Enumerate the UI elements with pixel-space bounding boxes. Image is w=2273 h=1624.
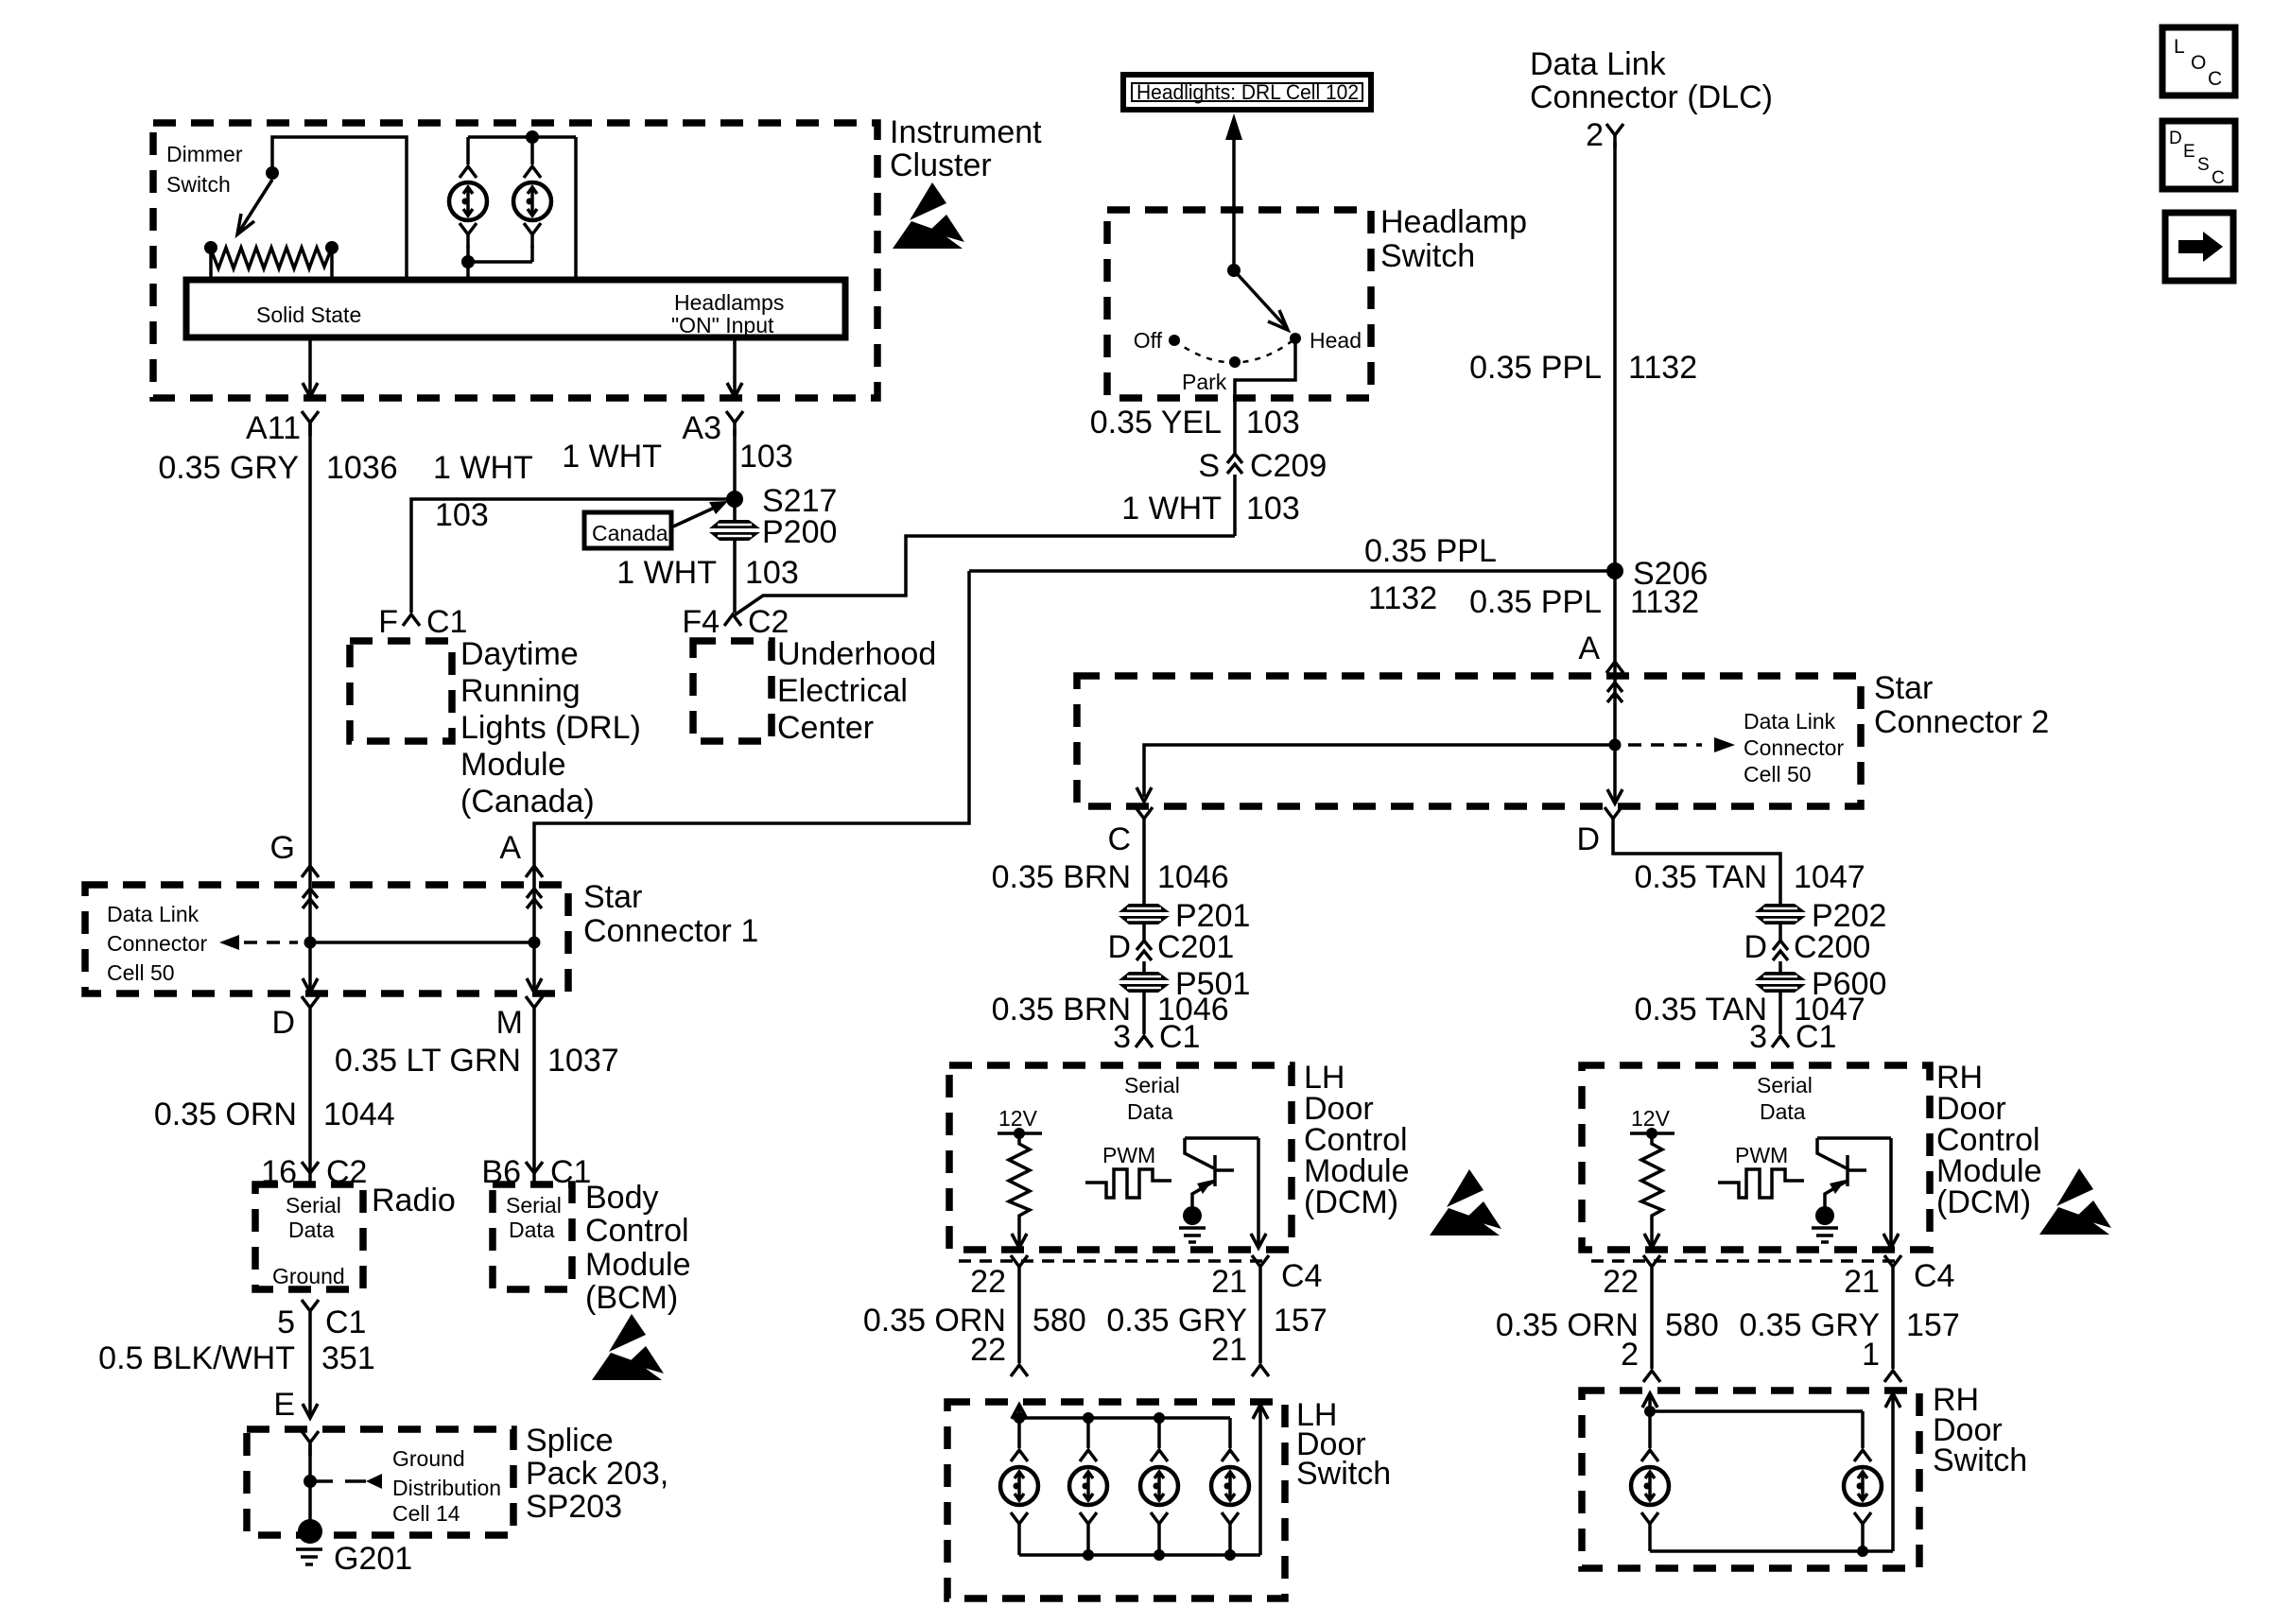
svg-text:21: 21 xyxy=(1844,1264,1880,1300)
splice S217 xyxy=(726,483,837,519)
pin E splice pack xyxy=(302,1431,319,1456)
svg-text:103: 103 xyxy=(1246,405,1300,441)
connector S C209 xyxy=(1198,448,1327,484)
svg-text:PWM: PWM xyxy=(1102,1143,1155,1167)
pin A11 xyxy=(246,410,319,446)
svg-text:Instrument: Instrument xyxy=(890,114,1042,150)
svg-text:1132: 1132 xyxy=(1368,580,1437,616)
PWM waveform (LH) xyxy=(1085,1143,1171,1198)
A branch inside SC1 xyxy=(527,889,542,993)
svg-text:Star: Star xyxy=(583,879,642,915)
svg-text:Switch: Switch xyxy=(1380,238,1475,274)
wire 0.35 ORN 580 (LH) xyxy=(863,1280,1086,1368)
pin 1 RH door switch xyxy=(1884,1371,1901,1382)
svg-text:Data Link: Data Link xyxy=(1530,46,1667,82)
svg-text:1037: 1037 xyxy=(547,1043,619,1079)
ground (RH DCM internal) xyxy=(1812,1206,1838,1242)
svg-text:Radio: Radio xyxy=(372,1183,456,1218)
ESD symbol (instrument cluster) xyxy=(893,182,964,249)
connector C4 interface (RH) xyxy=(1591,1255,1954,1300)
svg-text:0.35 ORN: 0.35 ORN xyxy=(154,1097,297,1132)
daytime running lights module box xyxy=(350,636,641,820)
svg-text:E: E xyxy=(2183,142,2195,162)
svg-text:3: 3 xyxy=(1113,1019,1131,1055)
wire 0.35 GRY 157 (RH) xyxy=(1739,1280,1959,1373)
pin 16 C2 radio xyxy=(261,1154,367,1190)
svg-text:Pack 203,: Pack 203, xyxy=(526,1456,668,1492)
svg-text:"ON" Input: "ON" Input xyxy=(671,313,774,337)
dimmer switch xyxy=(166,137,407,280)
svg-text:0.35 LT GRN: 0.35 LT GRN xyxy=(335,1043,521,1079)
svg-text:C: C xyxy=(2212,168,2225,188)
svg-text:Cell 50: Cell 50 xyxy=(107,960,175,985)
inline connector P202 xyxy=(1755,898,1886,934)
pin F C1 DRL module xyxy=(378,604,467,640)
pin 3 C1 LH DCM xyxy=(1113,1019,1200,1055)
pin F4 C2 underhood xyxy=(682,604,789,640)
svg-text:C200: C200 xyxy=(1794,929,1870,965)
potentiometer (dimmer rheostat) xyxy=(204,241,338,280)
svg-text:1132: 1132 xyxy=(1628,350,1697,386)
svg-text:Splice: Splice xyxy=(526,1423,614,1459)
svg-text:D: D xyxy=(271,1005,295,1041)
svg-text:Running: Running xyxy=(460,673,581,709)
wire 1 WHT 103 (C209) xyxy=(1121,475,1300,536)
wire 0.35 ORN 1044 xyxy=(154,1021,395,1173)
SC1 internal bus wire xyxy=(310,941,534,944)
svg-text:157: 157 xyxy=(1906,1307,1960,1343)
svg-text:A11: A11 xyxy=(246,410,301,446)
LOC reference box xyxy=(2162,27,2235,95)
svg-text:Switch: Switch xyxy=(1933,1443,2027,1478)
svg-text:Switch: Switch xyxy=(1296,1456,1391,1492)
svg-text:Connector (DLC): Connector (DLC) xyxy=(1530,79,1773,115)
svg-text:SP203: SP203 xyxy=(526,1489,622,1525)
svg-text:C1: C1 xyxy=(325,1304,366,1340)
svg-text:0.35 YEL: 0.35 YEL xyxy=(1090,405,1222,441)
svg-text:Cluster: Cluster xyxy=(890,147,992,183)
wire 0.35 PPL 1132 horizontal xyxy=(969,533,1615,616)
splice pack internal wire xyxy=(308,1444,312,1527)
svg-text:351: 351 xyxy=(321,1340,375,1376)
wire 1 WHT 103 branch to DRL xyxy=(411,450,735,613)
svg-text:Park: Park xyxy=(1182,370,1227,394)
LH DCM box xyxy=(949,1065,1292,1250)
svg-text:Switch: Switch xyxy=(166,172,231,197)
svg-text:C4: C4 xyxy=(1914,1258,1954,1294)
transistor Q (RH DCM) xyxy=(1817,1138,1891,1207)
12V pullup resistor (RH) xyxy=(1630,1106,1674,1248)
RH lamp 2 xyxy=(1844,1411,1882,1551)
connector C4 interface (LH) xyxy=(959,1255,1322,1300)
LH switch return wire xyxy=(1253,1405,1268,1555)
svg-text:C1: C1 xyxy=(1796,1019,1836,1055)
pin A star connector 2 xyxy=(1578,631,1623,673)
svg-text:0.5 BLK/WHT: 0.5 BLK/WHT xyxy=(98,1340,295,1376)
pin 21 LH door switch xyxy=(1252,1365,1269,1376)
LH door switch box xyxy=(947,1402,1285,1598)
svg-text:3: 3 xyxy=(1749,1019,1767,1055)
lamp feed wires xyxy=(461,130,576,280)
LH lamp 3 xyxy=(1140,1418,1178,1555)
wire 1 WHT 103 (A3) xyxy=(562,429,793,522)
radio box xyxy=(255,1184,363,1289)
svg-text:Serial: Serial xyxy=(1757,1073,1813,1097)
headlamp switch box xyxy=(1107,210,1371,398)
svg-text:0.35 TAN: 0.35 TAN xyxy=(1635,859,1767,895)
wire A11 output arrow xyxy=(303,337,318,397)
splice S206 xyxy=(1469,556,1708,620)
svg-text:E: E xyxy=(273,1387,295,1423)
wire 0.5 BLK/WHT 351 xyxy=(98,1324,375,1423)
svg-text:G: G xyxy=(270,830,295,866)
RH DCM output wire to pin 21 xyxy=(1883,1138,1899,1248)
C branch inside SC2 xyxy=(1136,745,1615,802)
svg-text:C1: C1 xyxy=(426,604,467,640)
12V pullup resistor (LH) xyxy=(998,1106,1042,1248)
svg-text:S: S xyxy=(2197,155,2210,175)
LH lamp 2 xyxy=(1069,1418,1107,1555)
dashed reference arrow to DLC cell 50 xyxy=(219,935,298,950)
svg-text:Star: Star xyxy=(1874,670,1933,706)
connector D C201 xyxy=(1107,924,1234,965)
svg-text:2: 2 xyxy=(1621,1337,1639,1373)
svg-text:Solid State: Solid State xyxy=(256,302,361,327)
svg-text:(Canada): (Canada) xyxy=(460,784,595,820)
svg-text:Connector 1: Connector 1 xyxy=(583,913,758,949)
wire 1 WHT 103 (below P200) xyxy=(616,541,799,613)
instrument cluster box xyxy=(153,123,877,398)
pin D below SC2 xyxy=(1576,807,1622,857)
svg-text:580: 580 xyxy=(1665,1307,1719,1343)
svg-text:1 WHT: 1 WHT xyxy=(562,439,662,475)
svg-text:P200: P200 xyxy=(762,514,837,550)
pin 2 DLC xyxy=(1586,117,1623,153)
svg-text:G201: G201 xyxy=(334,1541,412,1577)
svg-text:1 WHT: 1 WHT xyxy=(616,555,717,591)
pin A star connector 1 xyxy=(499,830,543,877)
svg-text:(BCM): (BCM) xyxy=(585,1280,678,1316)
wire 0.35 GRY 157 (LH) xyxy=(1106,1280,1327,1368)
svg-text:1036: 1036 xyxy=(326,450,398,486)
wire 0.35 BRN 1046 (lower) xyxy=(992,992,1229,1034)
svg-text:0.35 BRN: 0.35 BRN xyxy=(992,859,1131,895)
svg-text:Connector 2: Connector 2 xyxy=(1874,704,2049,740)
svg-text:2: 2 xyxy=(1586,117,1604,153)
svg-text:D: D xyxy=(1576,821,1600,857)
LH lamp 1 xyxy=(1000,1450,1038,1555)
wire 0.35 GRY 1036 xyxy=(158,423,397,909)
svg-text:0.35 TAN: 0.35 TAN xyxy=(1635,992,1767,1028)
solid state box xyxy=(186,280,845,337)
PWM waveform (RH) xyxy=(1718,1143,1804,1198)
svg-text:A: A xyxy=(499,830,521,866)
svg-text:Underhood: Underhood xyxy=(777,636,936,672)
svg-text:21: 21 xyxy=(1211,1332,1247,1368)
svg-text:(DCM): (DCM) xyxy=(1304,1184,1398,1220)
wire 0.35 ORN 580 (RH) xyxy=(1496,1280,1719,1373)
ESD symbol (BCM) xyxy=(592,1314,664,1380)
svg-text:580: 580 xyxy=(1032,1303,1086,1339)
svg-text:103: 103 xyxy=(1246,491,1300,527)
body control module box xyxy=(493,1184,572,1289)
svg-text:C: C xyxy=(1107,821,1131,857)
pin B6 C1 bcm xyxy=(481,1154,591,1190)
svg-text:Data: Data xyxy=(1127,1099,1173,1124)
svg-text:21: 21 xyxy=(1211,1264,1247,1300)
svg-text:F4: F4 xyxy=(682,604,720,640)
svg-text:O: O xyxy=(2191,52,2206,74)
svg-text:1 WHT: 1 WHT xyxy=(433,450,533,486)
inline connector P201 xyxy=(1119,898,1250,934)
svg-text:A3: A3 xyxy=(682,410,721,446)
svg-text:Serial: Serial xyxy=(506,1193,562,1218)
LH lamp 4 xyxy=(1211,1418,1249,1555)
inline connector P200 xyxy=(709,514,837,550)
dashed reference arrow to DLC cell 50 (SC2) xyxy=(1628,709,1844,786)
svg-text:1044: 1044 xyxy=(323,1097,395,1132)
svg-text:12V: 12V xyxy=(998,1106,1038,1131)
svg-text:0.35 GRY: 0.35 GRY xyxy=(1739,1307,1880,1343)
svg-text:C2: C2 xyxy=(748,604,789,640)
svg-text:F: F xyxy=(378,604,398,640)
svg-text:1047: 1047 xyxy=(1794,859,1865,895)
pin 3 C1 RH DCM xyxy=(1749,1019,1836,1055)
transistor Q (LH DCM) xyxy=(1185,1138,1258,1207)
svg-text:103: 103 xyxy=(435,497,489,533)
svg-text:PWM: PWM xyxy=(1735,1143,1788,1167)
svg-text:Data Link: Data Link xyxy=(107,902,200,926)
svg-text:D: D xyxy=(2169,129,2182,148)
connector D C200 xyxy=(1744,924,1870,965)
svg-text:L: L xyxy=(2174,36,2185,58)
underhood electrical center box xyxy=(693,636,936,746)
svg-text:1046: 1046 xyxy=(1157,859,1229,895)
svg-text:1: 1 xyxy=(1862,1337,1880,1373)
svg-text:Connector: Connector xyxy=(107,931,207,956)
svg-text:Lights (DRL): Lights (DRL) xyxy=(460,710,641,746)
svg-text:22: 22 xyxy=(970,1264,1006,1300)
svg-text:103: 103 xyxy=(739,439,793,475)
wire to star connector 1 A xyxy=(534,571,969,909)
pin 22 LH door switch xyxy=(1011,1365,1028,1376)
svg-text:0.35 PPL: 0.35 PPL xyxy=(1469,350,1602,386)
pin 5 C1 radio ground xyxy=(277,1300,366,1340)
svg-text:Control: Control xyxy=(585,1213,689,1249)
RH switch feed wire xyxy=(1642,1393,1863,1448)
RH lamp 1 xyxy=(1631,1450,1669,1551)
A branch inside SC2 xyxy=(1607,682,1622,803)
LH switch bottom bus xyxy=(1019,1549,1260,1561)
DESC reference box xyxy=(2162,121,2235,189)
svg-text:C4: C4 xyxy=(1281,1258,1322,1294)
Canada label box xyxy=(584,501,728,548)
forward arrow box xyxy=(2165,213,2233,281)
svg-text:157: 157 xyxy=(1274,1303,1327,1339)
pin C below SC2 xyxy=(1107,807,1153,857)
svg-text:0.35 PPL: 0.35 PPL xyxy=(1469,584,1602,620)
svg-text:Data Link: Data Link xyxy=(1744,709,1836,734)
svg-text:22: 22 xyxy=(970,1332,1006,1368)
svg-text:Canada: Canada xyxy=(592,521,668,545)
wire from C209 to underhood F4 C2 xyxy=(733,536,1235,616)
svg-text:0.35 ORN: 0.35 ORN xyxy=(1496,1307,1639,1343)
svg-text:C209: C209 xyxy=(1250,448,1327,484)
svg-text:Body: Body xyxy=(585,1180,659,1216)
svg-text:(DCM): (DCM) xyxy=(1936,1184,2031,1220)
svg-text:S: S xyxy=(1198,448,1220,484)
star connector 1 box xyxy=(85,885,568,993)
svg-text:Electrical: Electrical xyxy=(777,673,908,709)
svg-text:Center: Center xyxy=(777,710,874,746)
svg-text:12V: 12V xyxy=(1631,1106,1671,1131)
svg-text:103: 103 xyxy=(745,555,799,591)
wire 0.35 TAN 1047 xyxy=(1613,832,1865,904)
wire 0.35 PPL 1132 (DLC) xyxy=(1469,142,1697,703)
inline connector P600 xyxy=(1755,961,1886,1002)
G branch inside SC1 xyxy=(303,889,318,993)
svg-text:D: D xyxy=(1107,929,1131,965)
wire 0.35 TAN 1047 (lower) xyxy=(1635,992,1865,1034)
svg-text:Ground: Ground xyxy=(272,1264,345,1288)
star connector 2 box xyxy=(1077,676,1861,806)
ground distribution reference arrow xyxy=(304,1446,501,1526)
svg-text:Daytime: Daytime xyxy=(460,636,579,672)
svg-text:Headlamp: Headlamp xyxy=(1380,204,1527,240)
arrow up to headlights reference xyxy=(1225,113,1242,210)
data link connector label xyxy=(1530,46,1773,115)
svg-text:D: D xyxy=(1744,929,1767,965)
svg-text:0.35 GRY: 0.35 GRY xyxy=(158,450,299,486)
svg-text:M: M xyxy=(496,1005,523,1041)
svg-text:C: C xyxy=(2208,68,2222,90)
RH switch return wire xyxy=(1885,1393,1900,1551)
RH DCM box xyxy=(1582,1065,1930,1250)
wire 0.35 YEL 103 xyxy=(1090,405,1300,441)
svg-text:Distribution: Distribution xyxy=(392,1476,501,1500)
RH switch bottom bus xyxy=(1650,1546,1893,1557)
LH switch feed wire xyxy=(1012,1405,1230,1448)
svg-text:Headlights: DRL Cell 102: Headlights: DRL Cell 102 xyxy=(1136,80,1359,104)
LH DCM output wire to pin 21 xyxy=(1251,1138,1266,1248)
svg-text:Off: Off xyxy=(1134,328,1163,353)
ESD symbol (RH DCM) xyxy=(2039,1168,2111,1235)
svg-text:C201: C201 xyxy=(1157,929,1234,965)
svg-text:5: 5 xyxy=(277,1304,295,1340)
svg-text:Cell 14: Cell 14 xyxy=(392,1501,460,1526)
svg-text:Connector: Connector xyxy=(1744,735,1844,760)
svg-text:Module: Module xyxy=(585,1247,691,1283)
svg-text:Data: Data xyxy=(1760,1099,1806,1124)
svg-text:0.35 PPL: 0.35 PPL xyxy=(1364,533,1497,569)
wire 0.35 BRN 1046 xyxy=(992,832,1229,904)
svg-text:Head: Head xyxy=(1310,328,1362,353)
svg-text:Module: Module xyxy=(460,747,566,783)
pin A3 xyxy=(682,410,743,446)
ESD symbol (LH DCM) xyxy=(1430,1169,1501,1235)
pin M below SC1 xyxy=(496,996,543,1041)
svg-text:1 WHT: 1 WHT xyxy=(1121,491,1222,527)
pin D below SC1 xyxy=(271,996,319,1041)
svg-text:Ground: Ground xyxy=(392,1446,465,1471)
svg-text:C1: C1 xyxy=(1159,1019,1200,1055)
wire 0.35 LT GRN 1037 xyxy=(335,1021,619,1173)
svg-text:22: 22 xyxy=(1603,1264,1639,1300)
svg-text:A: A xyxy=(1578,631,1600,666)
svg-text:Cell 50: Cell 50 xyxy=(1744,762,1812,786)
svg-text:Headlamps: Headlamps xyxy=(674,290,784,315)
svg-text:Serial: Serial xyxy=(1124,1073,1180,1097)
inline connector P501 xyxy=(1119,961,1250,1002)
svg-text:Data: Data xyxy=(509,1218,555,1242)
splice pack box xyxy=(247,1429,513,1535)
ground (LH DCM internal) xyxy=(1179,1206,1206,1242)
svg-text:0.35 BRN: 0.35 BRN xyxy=(992,992,1131,1028)
cluster illumination lamp 1 xyxy=(449,137,487,280)
headlights DRL cell 102 reference box xyxy=(1123,75,1371,110)
cluster illumination lamp 2 xyxy=(513,137,551,262)
data link connector cell 50 text (SC1) xyxy=(107,902,207,985)
ground G201 xyxy=(296,1519,412,1577)
headlamp switch contacts xyxy=(1134,210,1362,454)
svg-text:1132: 1132 xyxy=(1630,584,1699,620)
svg-text:Dimmer: Dimmer xyxy=(166,142,243,166)
wire A3 output arrow xyxy=(727,337,742,397)
pin 2 RH door switch xyxy=(1643,1371,1660,1382)
svg-text:Data: Data xyxy=(288,1218,335,1242)
RH door switch box xyxy=(1582,1391,1919,1568)
svg-text:Serial: Serial xyxy=(286,1193,341,1218)
pin G star connector 1 xyxy=(270,830,319,877)
